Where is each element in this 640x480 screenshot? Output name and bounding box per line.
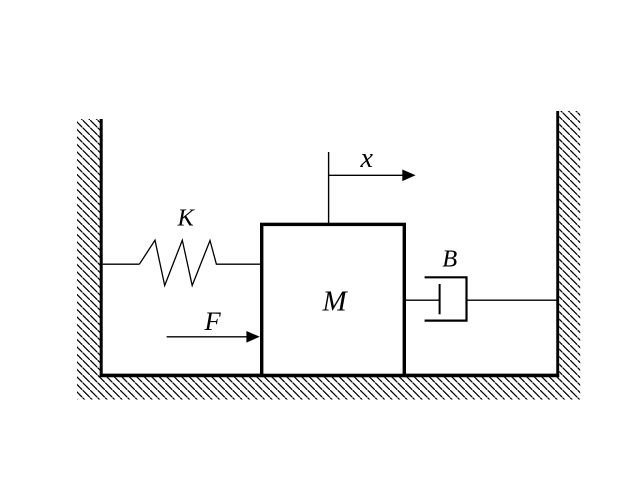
right wall <box>556 111 559 377</box>
damper wire from mass <box>405 299 440 301</box>
svg-text:x: x <box>360 143 374 174</box>
displacement arrow x head <box>402 170 415 182</box>
force arrow F shaft <box>167 336 248 338</box>
force arrow F head <box>246 331 259 343</box>
displacement arrow x shaft <box>329 174 404 176</box>
svg-text:K: K <box>177 205 196 232</box>
damper B piston <box>439 284 441 314</box>
damper B cylinder <box>425 277 467 320</box>
right wall hatching <box>559 111 580 400</box>
floor <box>100 374 560 378</box>
svg-text:F: F <box>204 306 222 336</box>
mass M block <box>262 224 405 375</box>
spring K wire from wall <box>103 263 140 265</box>
svg-text:B: B <box>442 245 457 272</box>
damper wire to wall <box>467 299 558 301</box>
floor hatching <box>101 377 559 400</box>
displacement reference vertical line <box>328 152 330 223</box>
svg-text:M: M <box>322 286 349 318</box>
spring K zigzag <box>139 240 261 285</box>
left wall hatching <box>77 119 101 400</box>
left wall <box>100 119 103 377</box>
